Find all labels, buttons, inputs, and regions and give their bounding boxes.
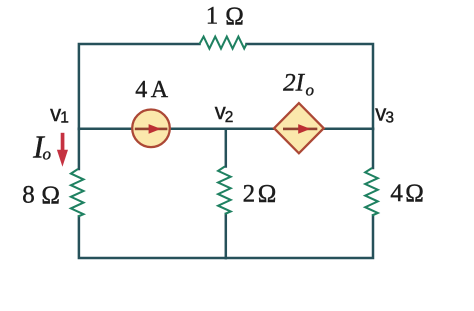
wire middle vertical v2 to 2-ohm — [225, 129, 228, 167]
wire top-right: 1-ohm to corner down to v3 — [247, 44, 374, 129]
wire top-left: v1 up to top rail — [79, 44, 200, 129]
wire left vertical above 8-ohm — [78, 129, 81, 169]
wire middle vertical below 2-ohm — [225, 214, 228, 258]
svg-text:Ω: Ω — [41, 182, 60, 209]
svg-text:1: 1 — [206, 3, 219, 30]
resistor 2-ohm middle — [218, 167, 231, 215]
svg-text:2I: 2I — [283, 70, 306, 97]
svg-text:2: 2 — [225, 109, 234, 126]
resistor 1-ohm top — [200, 37, 247, 49]
wire right vertical v3 to 4-ohm — [372, 129, 375, 168]
svg-text:Ω: Ω — [258, 181, 277, 208]
wire 4A source to diamond — [169, 128, 275, 131]
svg-text:A: A — [151, 77, 169, 103]
svg-text:Ω: Ω — [225, 3, 244, 30]
svg-text:o: o — [306, 80, 315, 99]
wire diamond to v3 — [323, 128, 373, 131]
svg-text:3: 3 — [385, 109, 394, 126]
svg-text:8: 8 — [22, 182, 35, 209]
svg-text:1: 1 — [60, 110, 69, 127]
wire left vertical below 8-ohm and bottom-left rail — [79, 217, 226, 259]
wire v1 to 4A source — [79, 128, 133, 131]
svg-text:4: 4 — [390, 180, 403, 207]
current source 4A circle — [132, 110, 170, 148]
resistor 4-ohm right — [365, 168, 378, 216]
arrow Io red downward — [57, 133, 68, 167]
svg-text:Ω: Ω — [405, 180, 424, 207]
svg-text:4: 4 — [135, 77, 147, 103]
wire right vertical below 4-ohm and bottom-right rail — [226, 216, 373, 259]
svg-text:o: o — [42, 145, 51, 164]
resistor 8-ohm left — [71, 169, 84, 217]
svg-text:2: 2 — [243, 180, 256, 207]
arrow inside 4A source — [135, 124, 168, 134]
dependent source 2Io diamond — [274, 103, 324, 153]
arrow inside 2Io source — [283, 124, 317, 134]
